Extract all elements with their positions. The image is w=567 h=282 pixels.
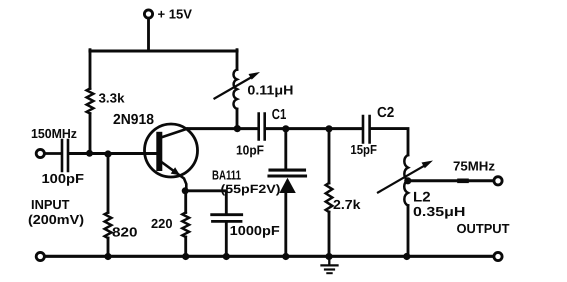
inductor L1 arrow stroke (215, 76, 254, 98)
node varactor top junction (282, 125, 289, 132)
node base-3.3k junction (86, 150, 93, 157)
resistor R4 2.7k (326, 183, 333, 212)
svg-text:L2: L2 (413, 189, 431, 205)
node L2 tap junction (404, 177, 411, 184)
terminal output (494, 177, 502, 185)
wire 2.7k upper lead (328, 129, 331, 183)
terminal bottom left (36, 252, 44, 260)
svg-text:10pF: 10pF (236, 142, 264, 157)
wire 820 lower lead (107, 238, 110, 257)
svg-text:150MHz: 150MHz (31, 126, 77, 141)
svg-text:0.11μH: 0.11μH (247, 83, 293, 98)
svg-text:INPUT: INPUT (31, 197, 70, 212)
wire 3.3k upper lead (89, 50, 92, 89)
wire C1 to C2 (266, 127, 362, 130)
svg-text:0.35μH: 0.35μH (413, 204, 465, 219)
transistor Q1 2N918 body (145, 124, 198, 177)
svg-text:2.7k: 2.7k (333, 197, 361, 212)
node 1000pF-ground rail junction (223, 253, 230, 260)
svg-text:100pF: 100pF (42, 171, 85, 186)
node base-820 junction (104, 150, 111, 157)
wire 2.7k lower lead (328, 212, 331, 257)
wire base (69, 152, 156, 155)
inductor L2 arrowhead (422, 161, 434, 169)
svg-text:(55pF2V): (55pF2V) (221, 182, 281, 196)
inductor L1 coil (234, 70, 237, 110)
ground (322, 258, 338, 273)
wire C2 to L2 (371, 129, 408, 155)
terminal +15V (144, 10, 152, 18)
wire +15V stem (147, 20, 150, 52)
wire output tap (408, 179, 493, 182)
svg-text:2N918: 2N918 (113, 112, 154, 128)
node 2.7k top junction (325, 125, 332, 132)
node collector-L1 junction (234, 125, 241, 132)
resistor R1 3.3k (87, 89, 94, 114)
capacitor 100pF (62, 140, 68, 171)
inductor L2 coil (404, 155, 408, 206)
wire 3.3k lower lead (89, 114, 92, 154)
node ground junction (325, 253, 332, 260)
resistor R2 820 (105, 213, 112, 239)
svg-text:OUTPUT: OUTPUT (457, 221, 510, 236)
transistor Q1 emitter stroke (162, 162, 187, 191)
capacitor C2 (363, 116, 370, 143)
node 820-ground rail junction (104, 253, 111, 260)
node varactor-ground rail junction (282, 253, 289, 260)
wire L1 upper lead (236, 50, 239, 70)
transistor Q1 collector stroke (161, 129, 187, 138)
wire top rail (90, 49, 237, 52)
svg-text:75MHz: 75MHz (453, 158, 495, 173)
transistor Q1 base bar (156, 132, 162, 171)
node L2-ground rail junction (403, 253, 410, 260)
node emitter junction (182, 187, 189, 194)
wire 1000pF lower lead (225, 223, 228, 257)
svg-text:220: 220 (151, 216, 173, 231)
svg-text:C1: C1 (272, 107, 287, 123)
capacitor C1 (259, 114, 265, 140)
resistor R3 220 (182, 213, 189, 238)
wire 820 upper lead (107, 154, 110, 213)
svg-text:(200mV): (200mV) (28, 212, 84, 227)
svg-text:1000pF: 1000pF (230, 223, 280, 238)
capacitor C4 1000pF (212, 215, 242, 222)
node output line blip (460, 179, 467, 184)
wire varactor upper lead (284, 129, 287, 168)
transistor Q1 emitter arrowhead (171, 167, 180, 175)
svg-text:15pF: 15pF (350, 142, 377, 157)
svg-text:+ 15V: + 15V (158, 7, 193, 22)
svg-text:BA111: BA111 (212, 168, 241, 183)
wire varactor lower lead (284, 193, 287, 257)
wire L1 lower lead (236, 109, 239, 129)
terminal bottom right (494, 252, 502, 260)
wire ground rail (46, 255, 493, 258)
wire 220 lower lead (184, 237, 187, 257)
diode D1 BA111 cathode bars (269, 170, 306, 176)
svg-text:3.3k: 3.3k (99, 91, 126, 106)
inductor L1 arrowhead (249, 72, 261, 80)
wire collector (187, 127, 258, 130)
wire emitter to 1000pF (186, 191, 227, 214)
wire input lead (46, 152, 61, 155)
inductor L2 arrow stroke (378, 165, 426, 193)
svg-text:820: 820 (112, 225, 138, 240)
terminal input (36, 149, 44, 157)
diode D1 BA111 anode triangle (279, 178, 295, 193)
svg-text:C2: C2 (377, 105, 394, 121)
node 220-ground rail junction (182, 253, 189, 260)
wire L2 lower lead (407, 206, 410, 257)
wire emitter to 220 (184, 191, 187, 213)
